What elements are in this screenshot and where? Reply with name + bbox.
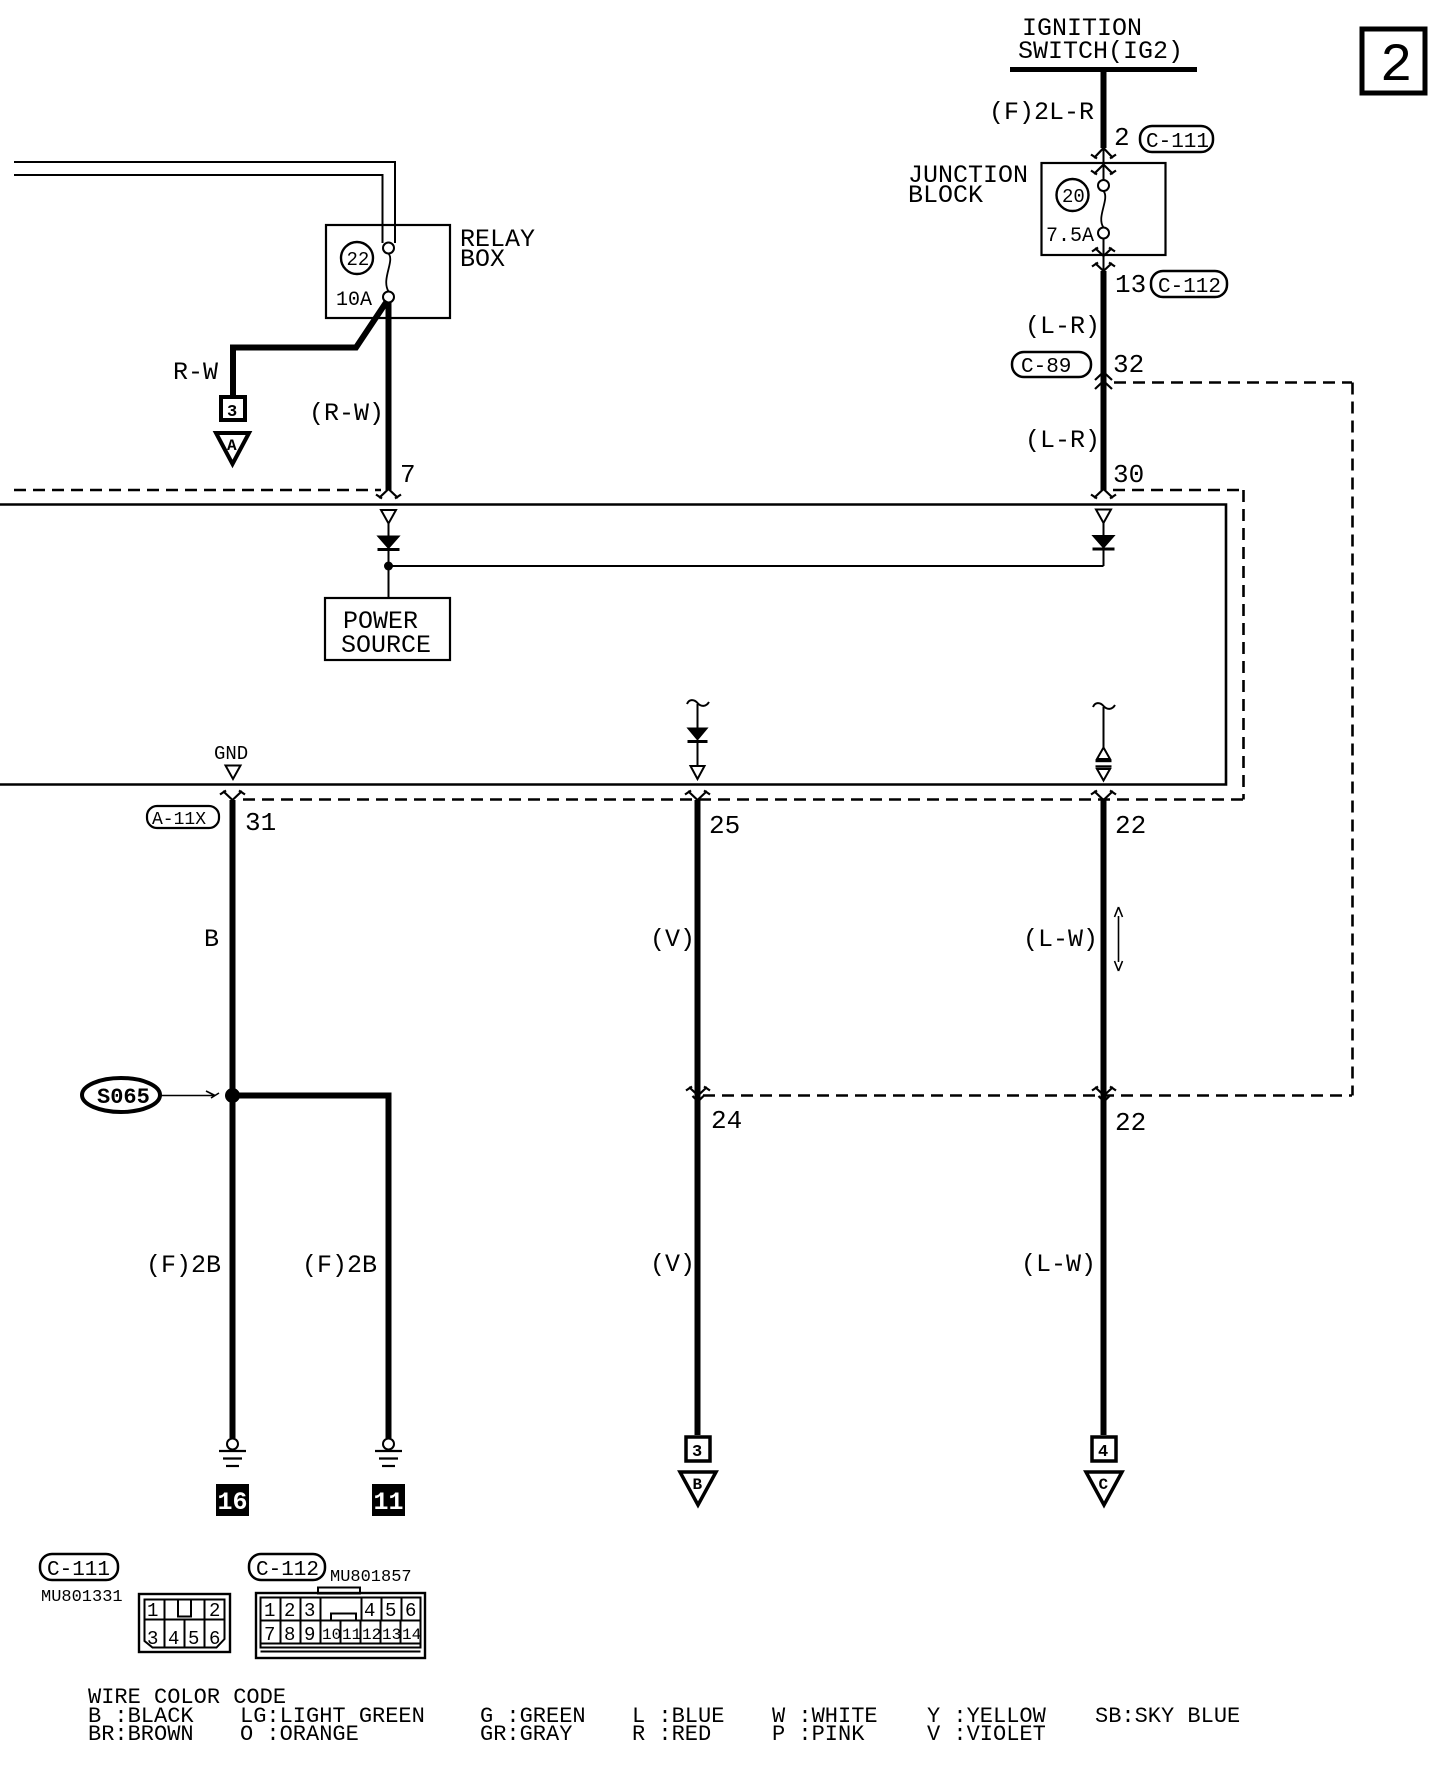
wire L-W (pin 22 down) — [1101, 800, 1107, 1435]
svg-text:2: 2 — [1114, 123, 1130, 153]
fuse number circle 20 — [1057, 179, 1089, 211]
ignition switch (IG2) label — [1018, 14, 1183, 66]
system unit box (solid) — [0, 505, 1226, 785]
svg-text:(F)2B: (F)2B — [146, 1251, 221, 1280]
svg-text:SB:SKY BLUE: SB:SKY BLUE — [1095, 1704, 1240, 1729]
terminal box 3 (wire V) — [686, 1437, 710, 1462]
bidirectional triangles at pin 22 — [1096, 748, 1112, 781]
diode D2 — [1093, 523, 1115, 566]
svg-text:(R-W): (R-W) — [309, 399, 384, 428]
svg-text:20: 20 — [1062, 186, 1085, 208]
svg-text:C: C — [1099, 1476, 1109, 1494]
relay fuse terminal top — [383, 243, 394, 254]
svg-text:(F)2L-R: (F)2L-R — [989, 98, 1094, 127]
wire (L-R) upper segment — [1101, 271, 1107, 490]
junction dot — [384, 562, 393, 571]
ground symbol right — [375, 1439, 402, 1467]
svg-text:GR:GRAY: GR:GRAY — [480, 1722, 572, 1747]
terminal box 3 (relay output) — [221, 397, 245, 422]
svg-text:7.5A: 7.5A — [1046, 225, 1094, 248]
svg-text:11: 11 — [374, 1488, 404, 1517]
svg-text:4: 4 — [168, 1628, 179, 1650]
svg-text:(L-R): (L-R) — [1025, 426, 1100, 455]
fuse number circle 22 — [341, 242, 373, 274]
ground symbol left — [219, 1439, 246, 1467]
dashed boundary bottom segment — [243, 798, 1244, 801]
svg-text:6: 6 — [405, 1600, 416, 1622]
harness triangle A — [216, 433, 249, 464]
svg-text:11: 11 — [342, 1626, 361, 1644]
output triangle at pin 25 — [691, 766, 705, 779]
connector C-111 pinout drawing — [139, 1594, 230, 1652]
svg-text:10A: 10A — [336, 289, 372, 312]
svg-text:4: 4 — [1098, 1443, 1108, 1462]
svg-text:5: 5 — [385, 1600, 396, 1622]
internal node wire joining diodes — [389, 565, 1104, 567]
svg-text:C-112: C-112 — [256, 1559, 319, 1582]
svg-text:32: 32 — [1113, 350, 1144, 380]
svg-text:SWITCH(IG2): SWITCH(IG2) — [1018, 37, 1183, 66]
chevron leaving junction block — [1092, 248, 1115, 257]
svg-text:24: 24 — [711, 1106, 742, 1136]
connector crossing chevron at C-111 pin 2 — [1091, 148, 1116, 159]
svg-text:(L-W): (L-W) — [1021, 1250, 1096, 1279]
fuse terminal top (junction block) — [1098, 180, 1109, 191]
svg-text:A-11X: A-11X — [152, 810, 206, 830]
svg-text:22: 22 — [1115, 1108, 1146, 1138]
relay feed wire lower — [14, 175, 383, 243]
arrow from S065 to wire B — [161, 1091, 219, 1098]
output hook symbol at pin 22 — [1093, 703, 1115, 709]
svg-text:V :VIOLET: V :VIOLET — [927, 1722, 1046, 1747]
dashed net right vertical — [1351, 383, 1354, 1096]
svg-text:2: 2 — [209, 1600, 220, 1622]
ground id 11 — [372, 1484, 405, 1517]
svg-text:16: 16 — [218, 1488, 248, 1517]
svg-text:(V): (V) — [650, 1250, 695, 1279]
svg-text:25: 25 — [709, 811, 740, 841]
svg-text:R :RED: R :RED — [632, 1722, 711, 1747]
dashed net from pin 32 to right — [1114, 381, 1352, 384]
crossing chevron at pin 22 lower — [1092, 1087, 1116, 1102]
harness triangle C — [1086, 1472, 1122, 1505]
branch chevron at pin 7 — [376, 489, 401, 499]
svg-text:3: 3 — [692, 1443, 702, 1462]
dashed boundary top-left segment — [14, 489, 381, 492]
wire (F)2L-R from ignition switch — [1101, 69, 1107, 181]
svg-text:6: 6 — [209, 1628, 220, 1650]
junction block box — [1042, 163, 1166, 255]
svg-text:B: B — [693, 1476, 703, 1494]
svg-text:13: 13 — [382, 1626, 401, 1644]
ignition switch bus bar — [1010, 67, 1197, 72]
connector crossing chevron at C-112 pin 13 — [1092, 263, 1115, 272]
svg-text:C-89: C-89 — [1021, 356, 1071, 379]
wire color code table — [88, 1685, 1240, 1747]
splice S065 — [82, 1078, 160, 1112]
connector C-112 callout — [1151, 271, 1227, 299]
svg-text:O :ORANGE: O :ORANGE — [240, 1722, 359, 1747]
diode D1 — [378, 524, 400, 567]
svg-text:10: 10 — [322, 1626, 341, 1644]
svg-text:MU801857: MU801857 — [330, 1568, 412, 1587]
connector C-112 callout (pinout) — [249, 1554, 412, 1587]
svg-text:BOX: BOX — [460, 245, 505, 274]
connector C-112 pinout drawing — [256, 1588, 425, 1659]
connector C-111 callout — [1140, 126, 1213, 154]
svg-text:7: 7 — [264, 1624, 275, 1646]
svg-text:(F)2B: (F)2B — [302, 1251, 377, 1280]
chevron entering junction block — [1091, 165, 1116, 175]
svg-text:S065: S065 — [97, 1085, 150, 1110]
junction block label — [908, 161, 1028, 210]
diode D3 — [688, 728, 708, 766]
svg-text:1: 1 — [264, 1600, 275, 1622]
svg-text:14: 14 — [402, 1626, 421, 1644]
branch chevron at pin 31 — [220, 791, 245, 801]
input triangle at pin 30 — [1096, 510, 1111, 524]
connector C-89 callout — [1012, 352, 1091, 379]
wire B (pin 31 to ground) — [230, 800, 236, 1438]
bidirectional arrow beside wire L-W — [1115, 907, 1123, 971]
svg-text:A: A — [227, 437, 237, 455]
relay fuse terminal bottom — [383, 292, 394, 303]
svg-text:22: 22 — [1115, 811, 1146, 841]
svg-text:13: 13 — [1115, 270, 1146, 300]
svg-text:C-111: C-111 — [1146, 131, 1209, 154]
svg-text:R-W: R-W — [173, 358, 218, 387]
fuse element (junction block) — [1101, 191, 1105, 228]
fuse terminal bottom (junction block) — [1098, 228, 1109, 239]
input triangle at pin 7 — [381, 510, 396, 524]
svg-text:12: 12 — [362, 1626, 381, 1644]
svg-text:9: 9 — [304, 1624, 315, 1646]
harness triangle B — [680, 1472, 716, 1505]
svg-text:C-111: C-111 — [47, 1559, 110, 1582]
GND triangle marker — [226, 766, 241, 780]
junction dot at S065 splice — [225, 1088, 240, 1103]
svg-text:(L-W): (L-W) — [1023, 925, 1098, 954]
svg-text:30: 30 — [1113, 460, 1144, 490]
wire inside box at 1103 — [1103, 707, 1105, 748]
svg-text:C-112: C-112 — [1158, 276, 1221, 299]
connector A-11X callout — [147, 806, 219, 830]
output hook symbol at pin 25 — [687, 700, 709, 706]
svg-text:2: 2 — [284, 1600, 295, 1622]
svg-text:P :PINK: P :PINK — [772, 1722, 865, 1747]
wire V (pin 25 down) — [695, 800, 701, 1435]
svg-text:22: 22 — [347, 249, 370, 271]
svg-text:GND: GND — [214, 743, 248, 765]
dashed net lower horizontal — [703, 1094, 1352, 1097]
svg-text:(V): (V) — [650, 925, 695, 954]
relay feed wire upper — [14, 162, 395, 243]
wire leaving junction block — [1103, 239, 1105, 272]
svg-text:5: 5 — [188, 1628, 199, 1650]
wire inside box at 697 — [697, 704, 699, 728]
ground id 16 — [216, 1484, 249, 1517]
connector C-111 callout (pinout) — [40, 1554, 123, 1607]
svg-text:4: 4 — [364, 1600, 375, 1622]
svg-text:7: 7 — [400, 460, 416, 490]
svg-text:B: B — [204, 925, 219, 954]
branch chevron at pin 25 — [685, 791, 710, 801]
svg-text:3: 3 — [304, 1600, 315, 1622]
svg-text:1: 1 — [147, 1600, 158, 1622]
svg-text:3: 3 — [147, 1628, 158, 1650]
relay box label — [460, 225, 535, 274]
branch chevron at pin 30 — [1091, 489, 1116, 499]
dashed boundary top-right segment — [1113, 489, 1244, 492]
relay box — [326, 225, 450, 318]
svg-text:31: 31 — [245, 808, 276, 838]
wire R-W branch to terminal 3 — [233, 301, 387, 396]
relay fuse element — [386, 254, 390, 292]
branch chevron at pin 22 — [1091, 791, 1116, 801]
svg-text:8: 8 — [284, 1624, 295, 1646]
svg-text:(L-R): (L-R) — [1025, 312, 1100, 341]
branch wire (F)2B to second ground — [233, 1096, 389, 1439]
svg-text:BLOCK: BLOCK — [908, 181, 983, 210]
chevron at C-89 pin 32 — [1095, 372, 1112, 389]
wire to power source — [388, 566, 390, 598]
svg-text:BR:BROWN: BR:BROWN — [88, 1722, 194, 1747]
svg-text:2: 2 — [1380, 36, 1412, 97]
power source box — [325, 598, 450, 660]
svg-text:MU801331: MU801331 — [41, 1588, 123, 1607]
terminal box 4 (wire L-W) — [1092, 1437, 1116, 1462]
page number box 2 — [1362, 29, 1425, 97]
dashed boundary right vertical — [1242, 490, 1245, 800]
wire (R-W) down from relay box — [386, 302, 392, 490]
crossing chevron at pin 24 — [686, 1087, 710, 1102]
svg-text:SOURCE: SOURCE — [341, 631, 431, 660]
svg-text:3: 3 — [227, 403, 237, 422]
